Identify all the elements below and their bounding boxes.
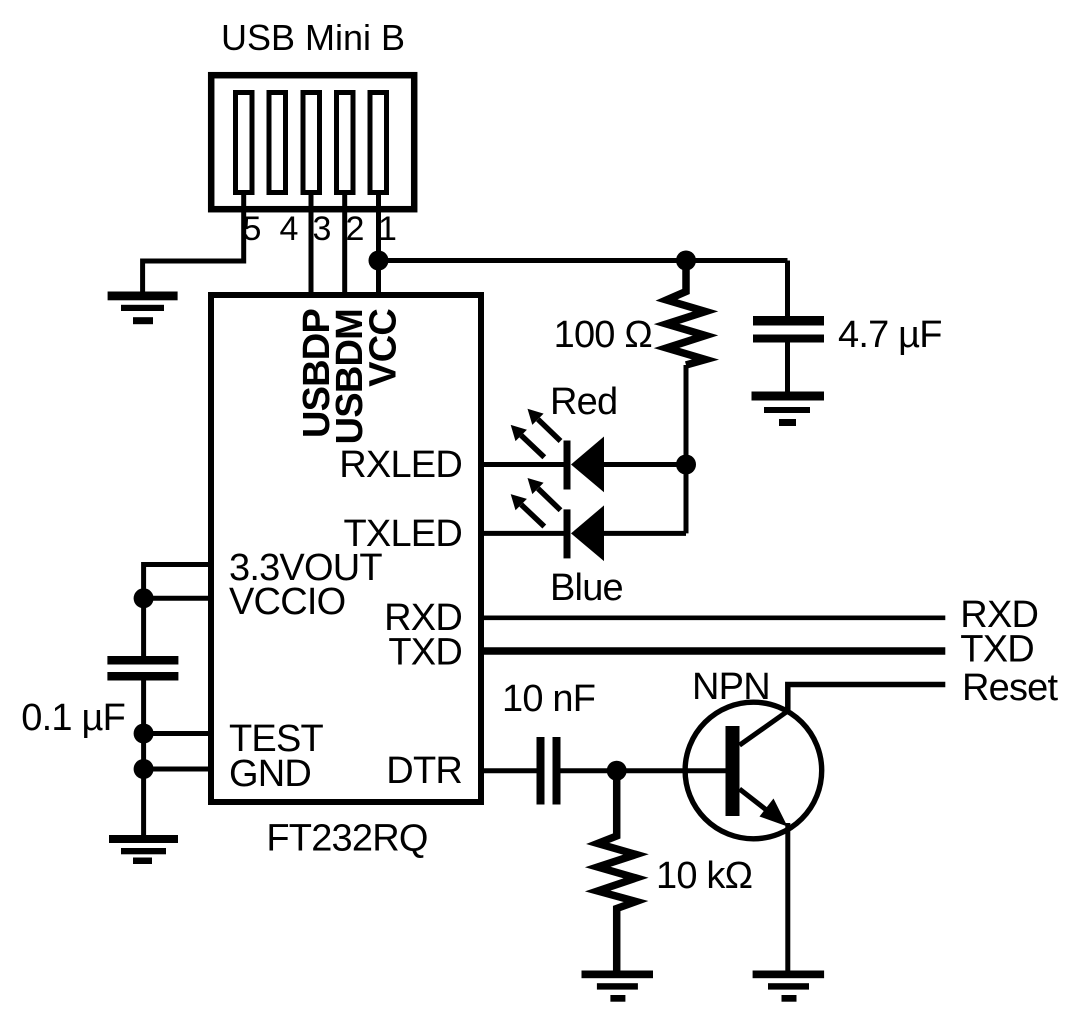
wire Reset [788, 685, 946, 712]
Q1 collector [740, 711, 788, 745]
USB pin 3 contact [303, 93, 320, 193]
USB pin 2 contact [337, 93, 354, 193]
Q1 base bar [726, 726, 740, 816]
transistor Q1 NPN [685, 702, 822, 839]
svg-text:4.7 µF: 4.7 µF [838, 314, 942, 356]
svg-text:VCCIO: VCCIO [229, 581, 345, 623]
ground G2 [752, 392, 825, 427]
svg-text:TXD: TXD [388, 632, 462, 674]
LED D2 Blue [564, 505, 605, 561]
wire 3.3VOUT [144, 565, 208, 657]
wire TEST [144, 731, 208, 736]
svg-text:100 Ω: 100 Ω [554, 314, 652, 356]
wire RXLED stub [484, 462, 564, 467]
wire GND [144, 767, 208, 772]
capacitor C1 4.7uF [785, 261, 790, 317]
node VCC-resistor junction [676, 251, 696, 271]
USB pin 5 contact [236, 93, 253, 193]
USB pin 1 contact [370, 93, 387, 193]
svg-text:10 kΩ: 10 kΩ [656, 855, 752, 897]
wire pin5 to ground [143, 192, 244, 292]
svg-text:4: 4 [280, 210, 299, 248]
resistor R2 10k [598, 771, 636, 971]
op IC U1 FT232RQ body [211, 295, 481, 802]
svg-text:2: 2 [346, 210, 365, 248]
svg-text:NPN: NPN [692, 666, 770, 708]
wire blue LED to junction [604, 531, 686, 536]
wire TXLED stub [484, 531, 564, 536]
resistor R1 100 ohm [667, 261, 706, 366]
wire pin1 VCC [376, 192, 381, 295]
wire resistor bottom to LED junction [684, 365, 689, 533]
svg-text:10 nF: 10 nF [502, 678, 595, 720]
node GND junction [134, 759, 154, 779]
USB connector J1 body [211, 75, 414, 209]
svg-text:0.1 µF: 0.1 µF [21, 697, 125, 739]
capacitor C3 10nF [537, 737, 561, 805]
capacitor C2 0.1uF [107, 656, 178, 681]
node TEST junction [134, 724, 154, 744]
svg-text:FT232RQ: FT232RQ [266, 818, 427, 860]
node LED junction [676, 455, 696, 475]
LED D1 arrows [521, 419, 560, 457]
USB pin 4 contact [269, 93, 286, 193]
wire cap to base [561, 768, 726, 773]
svg-text:Red: Red [550, 381, 617, 423]
svg-text:RXLED: RXLED [339, 444, 462, 486]
LED D1 Red [564, 437, 605, 493]
node VCC junction at pin1 [369, 251, 389, 271]
LED D2 arrows [521, 489, 560, 527]
svg-text:Reset: Reset [962, 667, 1059, 709]
wire emitter to ground [785, 823, 790, 971]
ground G4 [582, 971, 654, 1002]
wire pin3 USBDP [309, 192, 314, 295]
wire pin2 USBDM [342, 192, 347, 295]
node VCCIO junction [134, 588, 154, 608]
svg-text:GND: GND [229, 753, 311, 795]
ground G3 [109, 835, 178, 864]
wire red LED to junction [604, 462, 686, 467]
wire VCC rail [379, 258, 788, 263]
svg-text:USB Mini B: USB Mini B [221, 17, 405, 58]
ground G1 [108, 292, 178, 325]
svg-text:TXD: TXD [960, 629, 1034, 671]
wire TXD [484, 647, 945, 655]
node base junction [607, 761, 627, 781]
svg-text:VCC: VCC [363, 309, 405, 387]
Q1 emitter arrowhead [760, 799, 788, 827]
svg-text:DTR: DTR [386, 750, 462, 792]
wire DTR to cap [484, 768, 537, 773]
ground G5 [753, 971, 825, 1002]
svg-text:Blue: Blue [550, 567, 623, 609]
wire VCCIO [144, 596, 208, 601]
Q1 emitter [740, 789, 779, 819]
svg-text:3: 3 [313, 210, 332, 248]
wire RXD [484, 615, 945, 620]
